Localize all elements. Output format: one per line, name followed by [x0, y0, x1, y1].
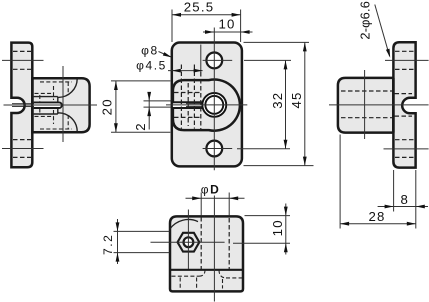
right view hidden hole lines: [341, 51, 414, 157]
front view plate: [172, 43, 242, 167]
svg-text:10: 10: [270, 219, 285, 236]
front view hole vertical centerline pieces: [213, 52, 215, 69]
bottom view nut hole: [184, 237, 194, 247]
dimension 25.5 top: [172, 0, 241, 42]
svg-text:φD: φD: [201, 183, 221, 197]
left view body block: [32, 78, 89, 132]
front view bottom hole crosshair: [203, 148, 233, 150]
dimension 20 left: [100, 81, 171, 132]
front view slot white interior: [173, 103, 204, 107]
dimension 7.2 bottom left: [101, 219, 170, 264]
bottom view hex nut: [178, 233, 200, 252]
bottom view hex vertical centerline: [187, 210, 189, 270]
right view vertical axis centerline: [364, 70, 366, 139]
label phiD with arrows: [186, 183, 245, 216]
right view horizontal centerline: [329, 104, 429, 106]
left view hole extension line top: [2, 59, 44, 61]
svg-text:2: 2: [133, 122, 148, 131]
front view boss: [173, 80, 240, 131]
dimension 32 right: [237, 60, 291, 148]
front view top hole: [206, 53, 222, 69]
svg-text:φ8: φ8: [141, 44, 159, 58]
dimension 10 top: [203, 17, 253, 34]
right view hole extension line bottom: [384, 148, 429, 150]
label phi4.5 with arrows: [136, 58, 203, 72]
svg-text:45: 45: [289, 91, 304, 108]
left view vertical axis centerline: [62, 66, 64, 142]
front view top hole crosshair: [203, 59, 233, 61]
front view phiD extension upper solid: [200, 45, 202, 73]
svg-text:8: 8: [401, 192, 410, 207]
bottom view boss quarter arc: [170, 219, 198, 228]
right view flange/body seam: [392, 78, 395, 133]
front view hidden pocket lines: [174, 65, 201, 131]
front view slot top wall: [172, 101, 203, 103]
left view hole extension line bottom: [2, 148, 44, 150]
svg-text:10: 10: [218, 17, 235, 32]
front view hub inner circle: [205, 96, 223, 114]
left view slot hidden thin lines through notch: [12, 103, 34, 105]
svg-text:2-φ6.6: 2-φ6.6: [357, 1, 372, 40]
right view flange plate with keyhole notch: [393, 42, 415, 167]
dimension 8 bottom right: [378, 170, 428, 229]
dimension 10 bottom view: [233, 204, 290, 255]
left view flange/body seam line: [31, 78, 34, 132]
right view body block: [338, 78, 394, 133]
dimension 2 slot: [133, 92, 171, 131]
bottom view flange divider line: [170, 269, 243, 271]
front view hub outer circle: [202, 93, 226, 117]
svg-text:7.2: 7.2: [101, 234, 115, 255]
svg-text:φ4.5: φ4.5: [136, 58, 167, 72]
front view horizontal centerline: [166, 104, 247, 106]
left view lower fillet arc: [58, 113, 77, 132]
left view hidden pocket dashes: [35, 82, 73, 129]
front view vertical centerline: [213, 28, 215, 171]
left view pocket profile lines: [34, 97, 58, 114]
svg-text:28: 28: [368, 209, 385, 224]
front view slot bottom wall: [172, 107, 203, 109]
dimension 45 right: [244, 42, 314, 165]
bottom view hidden boss lines: [201, 217, 229, 269]
svg-text:20: 20: [100, 98, 115, 115]
left view flange plate with keyhole notch: [11, 43, 32, 168]
bottom view main vertical centerline: [213, 196, 215, 302]
bottom view hex horizontal centerline: [151, 241, 225, 243]
label 2-phi6.6 with leader: [357, 1, 390, 58]
bottom view outline: [170, 216, 243, 291]
left view hidden hole lines top: [13, 51, 31, 157]
front view bottom hole: [206, 141, 222, 157]
right view hole extension line top: [385, 59, 429, 61]
left view horizontal centerline: [4, 104, 98, 106]
front view slot inner thread lines: [186, 103, 203, 105]
dimension 28 bottom right: [340, 135, 416, 229]
label phi8 with leader: [141, 44, 172, 58]
left view upper fillet arc: [58, 79, 77, 98]
svg-text:32: 32: [270, 92, 285, 109]
bottom view hidden notch lines in flange strip: [172, 270, 243, 289]
left view slot (white): [34, 102, 62, 108]
svg-text:25.5: 25.5: [184, 0, 214, 15]
